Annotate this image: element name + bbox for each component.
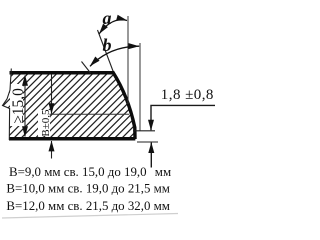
B bottom arrow — [51, 141, 53, 159]
tangent line S2 — [98, 30, 114, 71]
svg-text:В=10,0 мм св. 19,0 до 21,5 мм: В=10,0 мм св. 19,0 до 21,5 мм — [6, 182, 170, 196]
dimension 1,8±0,8 leader — [151, 105, 215, 130]
angle arc a — [99, 20, 127, 34]
1,8 bottom arrow — [150, 143, 152, 168]
extension line top of step — [133, 130, 155, 132]
svg-text:B±0,5: B±0,5 — [40, 109, 52, 137]
svg-text:b: b — [103, 35, 112, 55]
right face curve — [113, 72, 136, 140]
svg-text:В=9,0 мм св. 15,0 до 19,0: В=9,0 мм св. 15,0 до 19,0 — [9, 165, 147, 179]
white clearing for rotated text B±0,5 — [38, 110, 50, 136]
white clearing for rotated text ≥15,0 — [10, 84, 23, 126]
dimension line ≥15,0 — [24, 76, 26, 137]
svg-text:a: a — [103, 8, 112, 28]
svg-text:мм: мм — [155, 165, 171, 179]
left break line — [3, 69, 12, 141]
B level line — [50, 113, 130, 115]
top edge — [10, 71, 114, 75]
svg-text:1,8 ±0,8: 1,8 ±0,8 — [161, 87, 214, 103]
angle arc b — [90, 46, 139, 66]
svg-text:≥15,0: ≥15,0 — [10, 88, 27, 124]
faint artifact line — [2, 214, 178, 219]
hatching — [0, 65, 224, 145]
extension line 2 — [139, 43, 141, 131]
bottom edge — [9, 137, 135, 141]
dimension line B±0,5 vertical — [51, 74, 53, 114]
svg-text:В=12,0 мм св. 21,5 до 32,0 мм: В=12,0 мм св. 21,5 до 32,0 мм — [6, 199, 170, 213]
tangent tick S1 — [82, 62, 91, 74]
extension line bottom of step — [137, 141, 158, 143]
extension line 1 — [127, 16, 129, 104]
